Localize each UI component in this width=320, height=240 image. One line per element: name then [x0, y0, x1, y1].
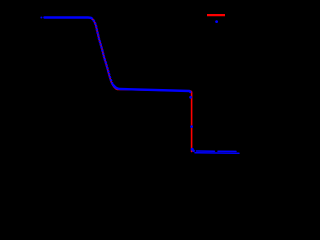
- blue data: bottom plateau upper dot-row: [197, 150, 237, 152]
- blue data: first sigmoid drop (dot chain, red fit peeking in gaps): [91, 18, 113, 85]
- legend: blue marker handle: [215, 20, 218, 23]
- blue data: isolated first sample dot: [40, 16, 42, 18]
- chart: two-step decreasing curve, blue data dots + red fit line on black background: [0, 0, 249, 175]
- blue data: top plateau (dense dots merged into line): [44, 16, 91, 19]
- blue data: bottom plateau lower dot-row: [195, 152, 239, 154]
- blue data: sparse dots on steep second drop: [189, 96, 192, 99]
- red fit curve (under blue data, visible at steep second drop): [45, 18, 192, 152]
- legend: red line handle: [207, 14, 225, 16]
- blue data: middle plateau (dense dots merged into line): [113, 85, 190, 92]
